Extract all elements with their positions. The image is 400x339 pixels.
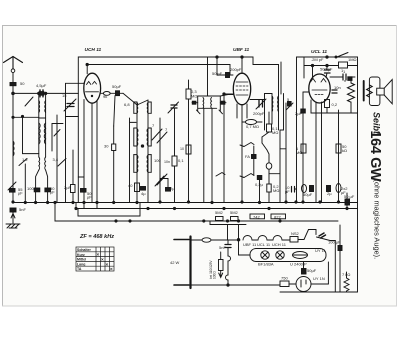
capacitor 50uF coupling xyxy=(116,91,120,96)
grid stub xyxy=(66,82,85,84)
node IF1 xyxy=(141,145,143,147)
svg-text:0,1: 0,1 xyxy=(178,158,184,163)
transformer core bar xyxy=(363,81,365,101)
coil L2a xyxy=(44,101,47,113)
coil IF1d xyxy=(146,155,149,172)
svg-text:2µF: 2µF xyxy=(64,185,72,190)
wire xyxy=(321,102,323,203)
wire IF2 col1 xyxy=(271,94,273,119)
trimmer cap mid xyxy=(168,102,179,113)
capacitor blob xyxy=(252,155,257,159)
tube U2 UBF11 xyxy=(233,73,250,105)
switch levers xyxy=(19,159,27,166)
coil L1a xyxy=(38,101,41,113)
lamp loop xyxy=(250,249,326,262)
resistor box 1M xyxy=(339,62,348,68)
wire bus 5 xyxy=(210,221,246,225)
svg-text:µF: µF xyxy=(50,190,55,195)
resistor 750 xyxy=(280,281,289,287)
svg-text:100 µF: 100 µF xyxy=(328,240,341,245)
wire UBF top drop xyxy=(207,57,209,96)
wire IF2 second drop xyxy=(280,62,282,94)
svg-text:10: 10 xyxy=(180,147,184,151)
capacitor 5nF line xyxy=(225,245,231,248)
svg-text:40: 40 xyxy=(128,183,133,188)
wire link left3 xyxy=(52,123,63,125)
node xyxy=(38,92,40,94)
coil IF1b xyxy=(146,129,149,146)
lamp 1 xyxy=(261,251,269,259)
resistor box 0.2M xyxy=(267,184,271,192)
capacitor right tube xyxy=(332,90,337,93)
coil link xyxy=(39,117,46,119)
svg-text:×: × xyxy=(101,257,104,262)
capacitor 1nF stub xyxy=(330,76,343,78)
svg-text:Schalter: Schalter xyxy=(77,248,91,252)
svg-text:42 W: 42 W xyxy=(170,260,180,265)
svg-text:4,5µF: 4,5µF xyxy=(36,83,47,88)
resistor small box xyxy=(71,185,76,193)
svg-text:1MΩ: 1MΩ xyxy=(348,57,357,62)
resistor box xyxy=(250,214,265,219)
coil IF1c xyxy=(136,155,139,172)
svg-text:UBF 11: UBF 11 xyxy=(233,47,250,53)
ground arrow xyxy=(12,212,14,223)
resistor box 0.1M xyxy=(267,124,272,132)
svg-text:UY 1N: UY 1N xyxy=(313,276,325,281)
svg-text:UCL 11: UCL 11 xyxy=(311,49,327,55)
resistor top box xyxy=(186,89,191,99)
switch top xyxy=(337,53,348,58)
capacitor 50uF blob xyxy=(302,269,307,275)
svg-text:6,8: 6,8 xyxy=(124,102,130,107)
node xyxy=(223,93,225,95)
small value labels xyxy=(18,57,357,273)
capacitor 4.5uF series xyxy=(40,90,43,97)
coil flares xyxy=(36,170,39,203)
svg-text:×: × xyxy=(110,267,113,272)
svg-text:100: 100 xyxy=(27,186,34,191)
wire xyxy=(120,92,124,94)
svg-text:15: 15 xyxy=(62,93,67,98)
mains plug xyxy=(174,237,191,289)
antenna coupling circle xyxy=(11,69,15,73)
wire IF2 col2 xyxy=(278,95,280,130)
svg-text:4µ: 4µ xyxy=(141,191,146,196)
wire top bus B xyxy=(87,65,230,76)
wire IF2 rail1 xyxy=(265,94,273,100)
resistor box xyxy=(271,214,286,219)
capacitor grid UBF xyxy=(226,73,230,78)
coil IF2b xyxy=(277,96,280,112)
svg-text:50 µF: 50 µF xyxy=(344,194,355,199)
capacitor blob xyxy=(81,189,87,193)
svg-text:5nF: 5nF xyxy=(219,245,226,250)
speaker magnet xyxy=(377,88,385,95)
svg-text:.2M pF: .2M pF xyxy=(311,57,324,62)
svg-text:50 pF: 50 pF xyxy=(212,71,223,76)
switch contact TA2 xyxy=(244,174,254,178)
capacitor bars 10uF xyxy=(292,187,295,193)
junction dots xyxy=(12,201,14,203)
wire xyxy=(296,57,298,203)
svg-text:BF1/83A: BF1/83A xyxy=(258,262,274,267)
svg-text:7 kΩ: 7 kΩ xyxy=(342,272,350,277)
svg-text:×: × xyxy=(97,252,100,257)
wire xyxy=(72,193,74,203)
svg-text:UCH 11: UCH 11 xyxy=(85,47,102,53)
trimmer arrows IF1 bottom xyxy=(157,174,167,185)
resistor oval 0.7M xyxy=(246,120,257,125)
tube U1 UCH11 xyxy=(84,73,101,103)
svg-text:MΩ: MΩ xyxy=(191,94,197,99)
wire antenna vertical xyxy=(12,73,14,83)
svg-text:UY 11: UY 11 xyxy=(315,248,327,253)
capacitor elco oval xyxy=(336,184,341,193)
secondary zigzag xyxy=(367,85,373,97)
svg-text:9k: 9k xyxy=(103,94,107,99)
resistor box 40 xyxy=(135,183,140,192)
wire below UCL box xyxy=(311,112,358,114)
ground node xyxy=(10,208,16,212)
svg-text:2µF: 2µF xyxy=(295,111,303,116)
capacitor blob xyxy=(310,186,314,192)
svg-text:NS2: NS2 xyxy=(291,231,300,236)
capacitor antenna blob xyxy=(10,83,16,86)
svg-text:10n: 10n xyxy=(164,160,170,164)
svg-text:µF: µF xyxy=(285,189,290,194)
coil L3 xyxy=(38,157,41,170)
switch contact xyxy=(123,93,137,105)
coil L1 xyxy=(39,123,40,144)
capacitor blob 50uF xyxy=(345,199,350,205)
svg-text:0,7 MΩ: 0,7 MΩ xyxy=(246,124,259,129)
wire bus 4 xyxy=(55,203,338,222)
svg-text:×: × xyxy=(106,262,109,267)
svg-text:TA: TA xyxy=(77,267,82,271)
svg-text:ZF = 468 kHz: ZF = 468 kHz xyxy=(79,234,114,240)
wire col3 xyxy=(56,115,58,203)
heater resistor wire xyxy=(226,256,231,280)
svg-text:FA: FA xyxy=(245,154,250,159)
osc coil block xyxy=(198,95,221,97)
svg-text:100: 100 xyxy=(154,158,161,163)
svg-text:50µF: 50µF xyxy=(307,268,317,273)
node antenna junction xyxy=(12,92,15,95)
svg-text:500 pF: 500 pF xyxy=(320,67,333,72)
svg-text:µF: µF xyxy=(18,191,23,196)
trimmer C osc xyxy=(64,99,76,111)
svg-text:Mittel: Mittel xyxy=(77,258,86,262)
capacitor blob 50uF xyxy=(45,188,51,192)
wire top bus A xyxy=(78,57,278,95)
svg-text:Kurz: Kurz xyxy=(77,253,85,257)
coil L2 xyxy=(44,123,45,144)
svg-text:164 GW: 164 GW xyxy=(367,131,383,182)
capacitor 100uF xyxy=(338,246,342,251)
bottom power bus xyxy=(280,291,358,293)
wire corner trimmer xyxy=(160,179,168,188)
wire coil column 1 xyxy=(38,93,40,157)
resistor oval xyxy=(103,92,110,96)
svg-text:UCH 11: UCH 11 xyxy=(272,242,287,247)
wire UCL pins xyxy=(310,100,312,113)
heater chain bumps xyxy=(243,236,252,241)
wire plate out xyxy=(101,92,104,94)
svg-text:2µ: 2µ xyxy=(170,186,175,191)
wire right power xyxy=(339,225,341,292)
svg-text:822: 822 xyxy=(274,215,281,220)
capacitor blob xyxy=(141,187,146,191)
resistor box xyxy=(301,144,306,153)
resistor box xyxy=(231,217,239,221)
svg-text:200pF: 200pF xyxy=(253,111,265,116)
wire tube pin drops xyxy=(77,83,79,202)
resistor box xyxy=(216,217,224,221)
svg-text:50: 50 xyxy=(20,81,25,86)
resistor box NSF xyxy=(290,237,298,243)
svg-text:MΩ: MΩ xyxy=(272,130,278,135)
capacitor blob xyxy=(327,186,331,192)
svg-text:750: 750 xyxy=(281,276,288,281)
wire UBF pins xyxy=(236,104,238,118)
trimmer small right xyxy=(286,103,293,110)
svg-text:5M2: 5M2 xyxy=(230,210,239,215)
svg-text:50µF: 50µF xyxy=(303,192,313,197)
capacitor elco oval xyxy=(302,185,307,193)
wire IF1 col2 xyxy=(147,100,149,202)
svg-text:n: n xyxy=(344,78,346,83)
svg-text:2µ: 2µ xyxy=(327,191,332,196)
dropper resistor xyxy=(219,260,224,271)
speaker cone xyxy=(384,80,392,104)
svg-text:0,2µ: 0,2µ xyxy=(255,182,264,187)
lamp 2 xyxy=(276,251,284,259)
coil IF1a xyxy=(136,129,139,146)
ballast oval xyxy=(293,252,308,259)
wire IF1 col1 xyxy=(136,102,138,203)
wire bus 2 xyxy=(76,203,358,209)
svg-text:3,4: 3,4 xyxy=(53,157,59,162)
resistor zigzag primary xyxy=(357,57,359,209)
ground xyxy=(6,223,20,225)
svg-text:100Ω: 100Ω xyxy=(213,271,217,279)
coil L4 xyxy=(44,157,47,170)
wire mid cols xyxy=(159,118,161,202)
svg-text:200pF: 200pF xyxy=(230,67,242,72)
svg-text:10n: 10n xyxy=(334,85,341,90)
svg-text:50µF: 50µF xyxy=(112,84,122,89)
svg-text:5M2: 5M2 xyxy=(215,210,224,215)
coil IF2a xyxy=(271,96,274,112)
svg-text:0,2: 0,2 xyxy=(332,102,338,107)
wire oval xyxy=(242,121,246,123)
wire to IF1 xyxy=(137,100,148,105)
capacitor pair xyxy=(325,70,331,73)
rectifier UY1N xyxy=(296,277,311,292)
capacitor blob xyxy=(166,188,171,192)
svg-text:U 2400 P: U 2400 P xyxy=(290,262,307,267)
wire coil column 2 xyxy=(45,93,47,157)
svg-text:(ohne magisches Auge).: (ohne magisches Auge). xyxy=(373,180,382,260)
wire IF2 rail2 xyxy=(283,94,285,131)
svg-text:UBF 11: UBF 11 xyxy=(243,242,257,247)
svg-text:UCL 11: UCL 11 xyxy=(257,242,271,247)
svg-text:µF: µF xyxy=(87,195,92,200)
switch mains xyxy=(298,239,304,241)
wire link left2 xyxy=(66,116,79,118)
fuse xyxy=(191,239,202,241)
svg-text:Lang: Lang xyxy=(77,262,85,266)
svg-text:1,2: 1,2 xyxy=(22,157,28,162)
wire switch drop xyxy=(22,117,24,153)
resistor 30k xyxy=(112,144,116,151)
wire bus 1 xyxy=(13,202,358,204)
resistor box xyxy=(336,144,341,153)
capacitor blob 100uF xyxy=(34,188,40,192)
svg-text:kΩ: kΩ xyxy=(342,148,347,153)
resistor 7k zigzag xyxy=(344,278,349,291)
resistor box mid xyxy=(172,156,177,166)
svg-text:MΩ: MΩ xyxy=(296,150,302,155)
wire grid feed xyxy=(220,95,228,97)
trimmer arrows xyxy=(155,176,164,186)
tube U3 UCL11 xyxy=(309,74,330,103)
wire UCL top B xyxy=(304,65,358,67)
fuse circle 1M xyxy=(266,163,272,169)
speaker frame xyxy=(369,77,380,106)
resistor box below xyxy=(325,100,330,108)
capacitor blob 55uF xyxy=(10,189,16,193)
wire UCL top A xyxy=(297,56,358,58)
svg-text:30: 30 xyxy=(104,144,109,149)
trimmer IF2 xyxy=(256,99,266,109)
svg-text:742: 742 xyxy=(253,215,260,220)
wire bus 3 xyxy=(78,203,140,217)
svg-text:MΩ: MΩ xyxy=(273,188,279,193)
capacitor blob 5uF xyxy=(257,176,262,180)
trimmer arrows IF1 xyxy=(152,129,162,140)
wire grid feed UBF xyxy=(217,57,233,75)
switch contact TA1 xyxy=(244,143,254,147)
wire antenna to tube xyxy=(13,92,78,94)
svg-text:5nF: 5nF xyxy=(19,207,26,212)
antenna xyxy=(4,57,23,69)
wire link left1 xyxy=(13,116,39,118)
coil antenna wire xyxy=(13,141,14,156)
